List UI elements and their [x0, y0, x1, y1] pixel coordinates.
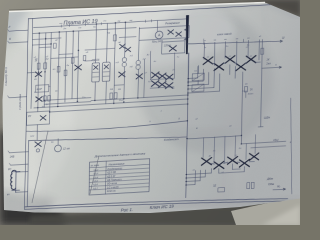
staircase wire s6	[229, 65, 231, 75]
thyristor VS7	[214, 161, 224, 169]
lower staircase s3	[199, 170, 201, 181]
thyristor VS10b	[249, 153, 258, 160]
table row lines	[90, 164, 150, 167]
transformer L1 coil	[11, 170, 17, 189]
resistor R2	[44, 63, 47, 69]
wire seg f	[149, 51, 152, 80]
wire mid-h1	[51, 57, 78, 59]
wire seg d	[114, 84, 124, 87]
rail segment r3	[32, 44, 51, 45]
thyristor chain links	[212, 63, 214, 65]
frame left inner border	[31, 18, 33, 108]
diode VD2	[36, 97, 42, 102]
rail arrow terminal	[280, 40, 282, 42]
diode VD5	[125, 47, 131, 52]
wire column x79	[77, 31, 78, 102]
upper chain feed drops	[203, 43, 205, 59]
relay K3 contact	[40, 115, 46, 120]
background dark top-right	[230, 0, 300, 16]
lower frame top	[29, 131, 188, 146]
capacitor C6	[48, 95, 51, 101]
thyristor VS2	[214, 63, 224, 71]
tick t2	[242, 39, 244, 42]
bus bar arrows	[185, 29, 187, 31]
paper top edge shadow above	[9, 1, 265, 10]
transformer wire top	[16, 170, 28, 173]
thyristor VS9	[239, 159, 249, 167]
wire column x74	[72, 31, 73, 99]
wire right column	[261, 40, 263, 127]
wire r10 stub	[245, 92, 247, 98]
contactor K1	[192, 73, 204, 81]
junction dots left	[39, 32, 40, 33]
paper highlight left	[0, 40, 74, 190]
transistor Q1	[122, 57, 126, 62]
rail ticks	[60, 25, 62, 27]
junction dots upper	[187, 78, 188, 79]
frame tie wire	[27, 71, 34, 73]
resistor R5	[114, 93, 117, 99]
terminal wire b1	[9, 152, 28, 153]
transformer terminal bottom	[12, 189, 20, 191]
wire column x140	[138, 27, 141, 60]
diode VD9	[159, 73, 167, 79]
resistor R7	[247, 183, 250, 189]
wire column x60	[58, 32, 59, 107]
component box U2	[36, 85, 49, 93]
wire diode row feed	[150, 78, 174, 79]
wire column x67	[65, 32, 66, 103]
paper shadow bottom-left corner	[0, 190, 55, 225]
staircase wire s2	[202, 69, 204, 81]
paper highlight top	[15, 0, 235, 68]
bus gap1	[26, 121, 187, 133]
paper crease bottom	[30, 200, 300, 214]
IC U1 body B	[102, 62, 110, 81]
paper crease right-bottom diagonal	[240, 196, 300, 207]
thyristor VS3	[225, 56, 235, 64]
IC U1 inner contact A	[94, 65, 98, 69]
resistor R9	[71, 58, 74, 64]
diode VD4	[120, 44, 126, 49]
lower chain stems	[218, 169, 220, 174]
staircase wire s4	[213, 69, 215, 88]
pencil line 1	[32, 131, 48, 203]
component box U3	[162, 41, 185, 54]
wire chain right drop	[241, 72, 242, 144]
thyristor VS1	[203, 57, 213, 65]
diode VD13	[165, 83, 173, 89]
diode VD1	[35, 72, 41, 77]
bus m3	[50, 104, 188, 112]
wire lower-right horiz	[241, 141, 286, 144]
upper chain drop ticks	[203, 40, 205, 42]
wire arrow right	[262, 67, 281, 68]
table outline	[89, 159, 150, 195]
wire seg c	[85, 60, 93, 62]
lower staircase s4	[194, 171, 196, 185]
diode VD11	[151, 80, 159, 86]
transformer terminal top	[12, 170, 20, 172]
wire column x46	[44, 33, 45, 108]
thyristor VS8	[227, 156, 237, 164]
frame right border	[289, 98, 294, 194]
lower staircase s1	[210, 169, 212, 174]
wire seg g	[173, 53, 176, 79]
terminal wire a3	[9, 97, 27, 98]
background dark bottom-left	[0, 130, 66, 225]
lower staircase s2	[204, 170, 206, 177]
thyristor VS6	[201, 157, 211, 165]
resistor R10	[244, 86, 247, 92]
component 1Д box	[218, 188, 225, 193]
thyristor VS4	[236, 63, 246, 71]
capacitor C3	[64, 70, 67, 76]
resistor R1	[37, 63, 40, 69]
diode VD7	[136, 74, 143, 79]
diode VD8	[152, 72, 160, 78]
ohmmeter P2	[54, 145, 61, 152]
contactor K2	[192, 84, 204, 92]
diode VD12	[158, 82, 166, 88]
wire w-l1	[44, 98, 91, 101]
terminal wire a1	[9, 30, 28, 31]
wire k-feed	[197, 65, 199, 73]
diode VD17	[35, 141, 42, 146]
IC U1 lower pins	[94, 82, 96, 101]
lower frame left	[27, 140, 28, 206]
wire column x116	[114, 23, 116, 103]
terminal wire a2	[9, 42, 28, 43]
background bright corner bottom-right	[262, 205, 300, 225]
resistor R6	[261, 48, 264, 54]
lower chain feed drops	[202, 138, 204, 158]
wire mid-h2	[85, 48, 115, 50]
staircase wire s3	[208, 72, 210, 84]
IC U1 inner contact B	[104, 65, 108, 69]
bus m1	[91, 95, 188, 101]
terminal arrow bottom right	[273, 188, 285, 191]
IC U1 body A	[92, 63, 100, 82]
rail upper-left	[32, 28, 136, 34]
reserve box	[139, 26, 189, 41]
wire q-down2	[137, 69, 140, 98]
diode VD3	[75, 65, 82, 71]
wire mid-right horiz	[187, 136, 242, 139]
diode VD14	[168, 30, 174, 35]
relay K3 box	[26, 111, 49, 125]
bus bar vertical wire	[187, 53, 190, 84]
background dark strip bottom	[30, 204, 250, 225]
paper shadow top-left corner	[0, 8, 30, 45]
staircase wire s1	[197, 66, 199, 78]
wire seg e	[143, 60, 146, 98]
resistor R3	[113, 35, 116, 41]
wire seg h	[156, 20, 158, 30]
diode VD6	[119, 72, 125, 77]
wire mid-h3	[119, 36, 136, 39]
bus bar (heavy)	[185, 15, 189, 54]
resistor R4	[110, 93, 113, 99]
lower chain links	[211, 162, 214, 165]
paper shadow under top edge	[180, 4, 300, 18]
rail top-right	[187, 39, 281, 47]
terminal wire b2	[11, 164, 29, 165]
junction dots mid	[123, 98, 124, 99]
wire q-down1	[123, 67, 126, 99]
thyristor VS5	[246, 56, 256, 64]
junction dots cluster	[38, 71, 39, 72]
junction dots buses	[187, 94, 188, 95]
wire column x126	[124, 22, 127, 57]
rail segment r2	[32, 38, 61, 40]
capacitor C5	[83, 55, 86, 60]
frame left outer border	[24, 19, 28, 210]
frame bottom border (double)	[24, 192, 287, 214]
junction dots lower	[186, 174, 187, 175]
frame top border	[28, 4, 286, 19]
paper top edge highlight	[9, 3, 265, 12]
capacitor C4	[53, 43, 56, 48]
tick right column end	[258, 126, 263, 128]
diode VD10	[166, 74, 174, 80]
tick t1	[203, 41, 205, 44]
wire column x40	[38, 33, 40, 112]
IC U1 pin wire 2	[106, 23, 109, 62]
paper shade lower-center	[40, 130, 230, 205]
wire seg b	[59, 53, 73, 56]
paper crease top-right	[262, 3, 270, 60]
background light wedge bottom-right	[231, 196, 300, 225]
resistor R8	[251, 182, 254, 188]
relay stub	[36, 125, 38, 140]
capacitor C2	[57, 66, 60, 72]
wire seg a	[39, 46, 51, 49]
transformer wire bottom	[16, 191, 28, 194]
indicator circle	[36, 149, 39, 152]
IC U1 pin wire	[95, 24, 98, 63]
wire column x52	[50, 32, 52, 112]
title underline / top rail	[33, 19, 186, 28]
table column divider	[104, 161, 107, 194]
ammeter PA1	[155, 31, 163, 39]
bus m2	[34, 99, 188, 108]
ohmmeter stub	[57, 139, 59, 145]
pencil line 2	[90, 156, 99, 194]
wire w-l2	[44, 102, 91, 105]
transistor Q2	[136, 60, 140, 65]
capacitor C1	[43, 96, 46, 102]
staircase wire s5	[218, 74, 220, 92]
paper shadow right-middle band	[137, 8, 273, 152]
diode VD16	[169, 46, 176, 52]
diode VD15	[176, 32, 182, 37]
